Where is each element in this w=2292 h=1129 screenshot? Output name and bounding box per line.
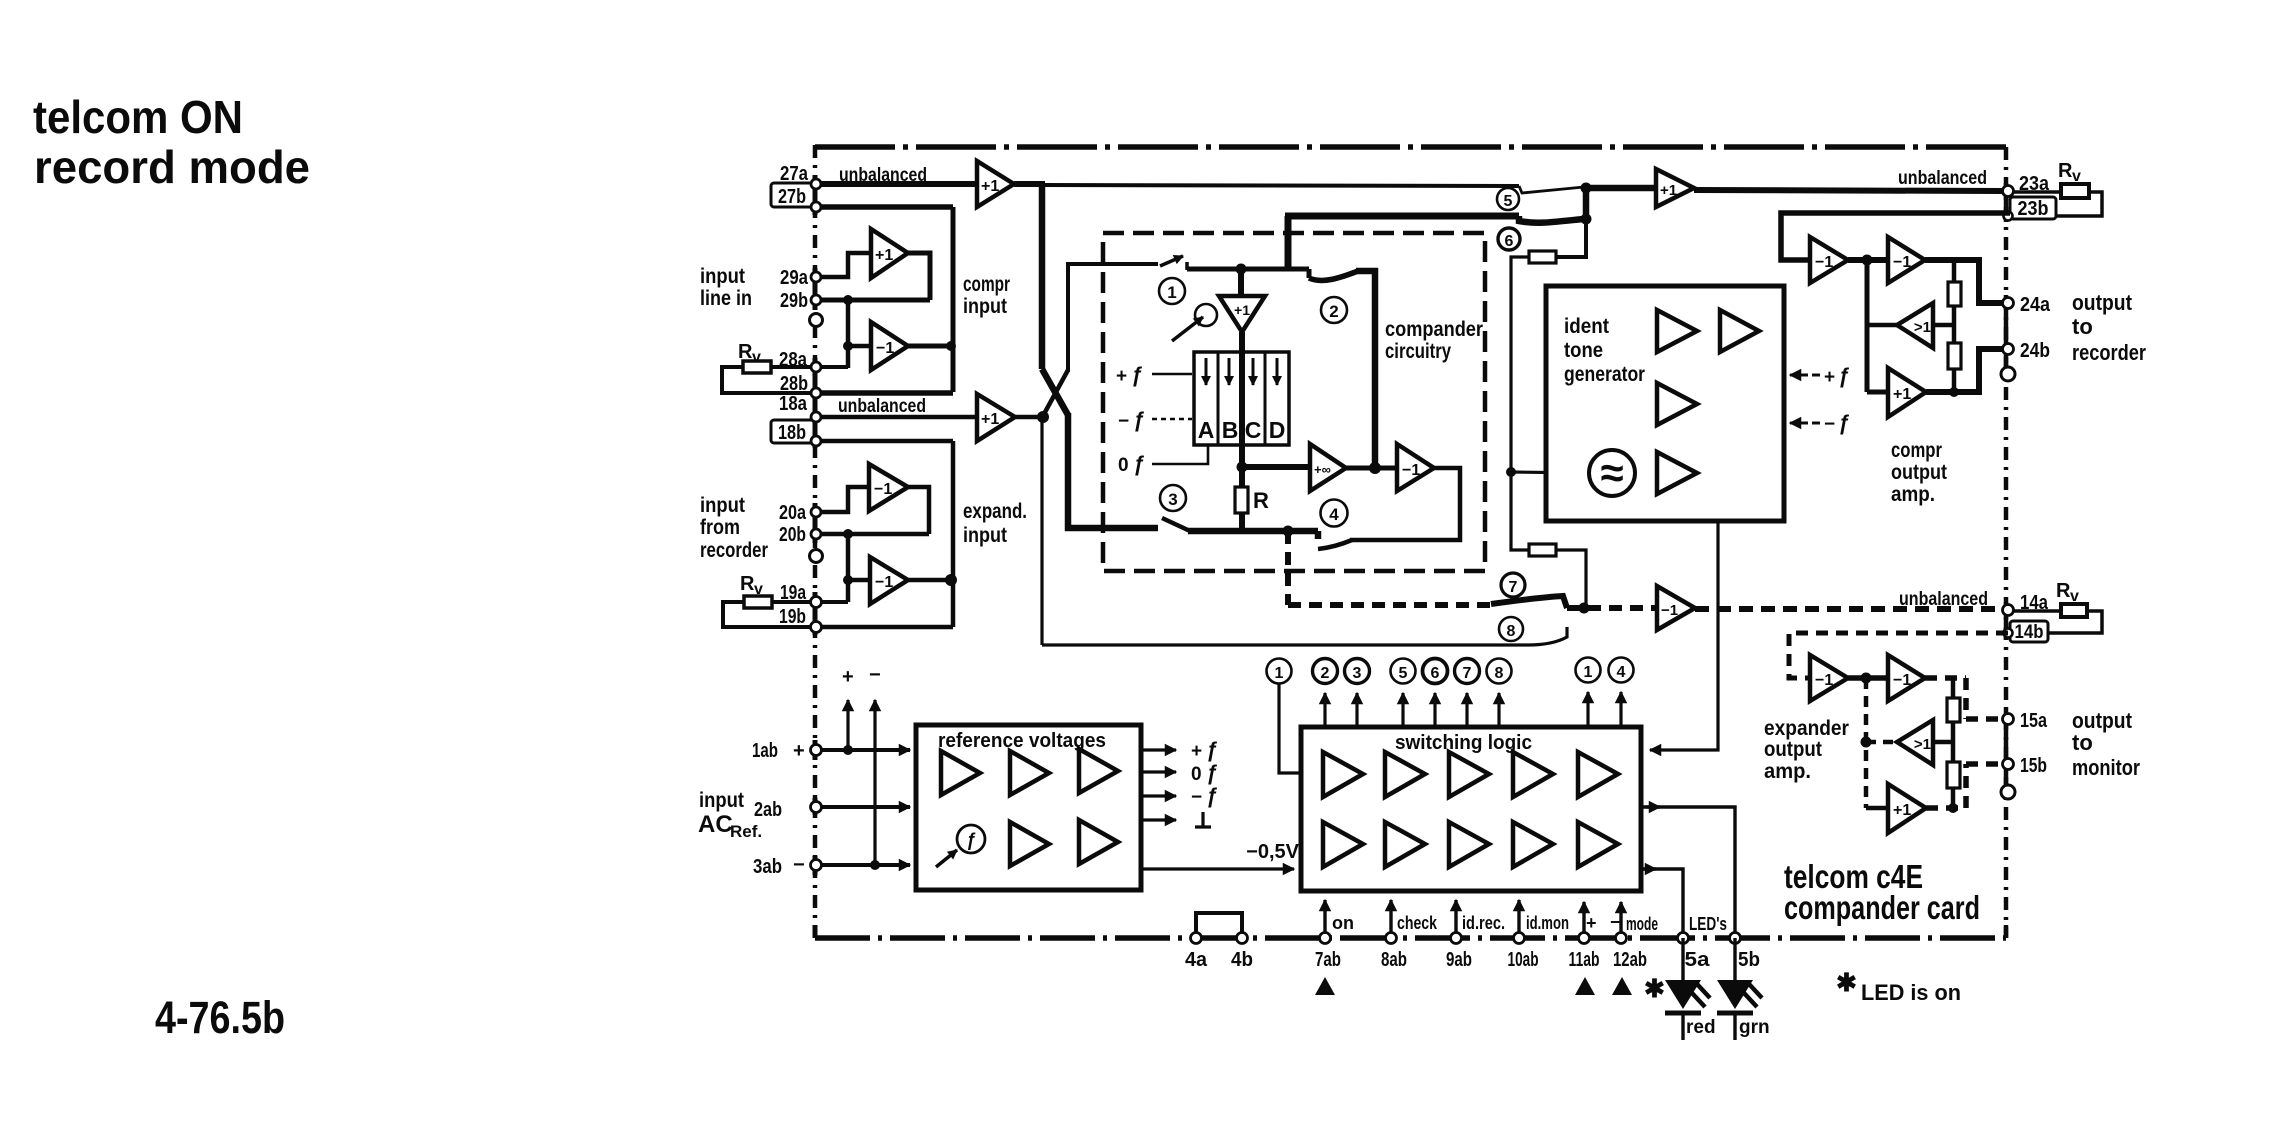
svg-text:3ab: 3ab [753, 856, 782, 878]
label compr output amp. [1891, 439, 1947, 506]
svg-text:R: R [740, 573, 755, 595]
wire 20a to amp [816, 487, 869, 512]
svg-text:R: R [2056, 580, 2071, 602]
pin 15a circle [2003, 714, 2014, 725]
wire control 1 into box [1279, 684, 1299, 773]
wire upper amp feedback loop to 29b [908, 253, 930, 300]
svg-text:expand.: expand. [963, 500, 1027, 523]
svg-text:compr: compr [1891, 439, 1942, 462]
wire 27a vertical down [1039, 184, 1046, 369]
svg-text:20a: 20a [779, 502, 807, 524]
node 5 circle [1497, 188, 1519, 210]
svg-text:generator: generator [1564, 363, 1645, 386]
wire third amp input [1867, 390, 1888, 395]
op-amp -1 expander output second [1888, 655, 1925, 701]
svg-text:ƒ: ƒ [966, 830, 976, 850]
wire 18a [816, 415, 977, 420]
sine source circle [1589, 450, 1635, 496]
pin 15b circle [2003, 759, 2014, 770]
pin 1ab [752, 740, 805, 762]
ref output arrow ground [1141, 818, 1176, 821]
svg-text:4a: 4a [1185, 949, 1208, 971]
pin label 19a / 19b [779, 582, 807, 628]
control node 4 [1609, 658, 1634, 683]
wire 20b down to lower amp input [846, 534, 851, 602]
ref triangle r1c1 [941, 751, 980, 795]
svg-text:ident: ident [1564, 315, 1609, 338]
svg-text:4: 4 [1617, 664, 1626, 681]
svg-text:to: to [2072, 314, 2093, 339]
wire 19b (expand input box bottom edge) [816, 625, 953, 630]
svg-text:7ab: 7ab [1315, 949, 1341, 971]
svg-text:0: 0 [1118, 455, 1129, 476]
svg-text:+: + [1191, 741, 1202, 762]
svg-text:−: − [793, 854, 805, 876]
card boundary right edge [2004, 147, 2009, 938]
wire to lower amp [848, 344, 871, 349]
node 3 circle [1160, 485, 1186, 511]
wire 23b return [1781, 213, 2010, 260]
svg-text:monitor: monitor [2072, 755, 2140, 780]
logic triangle r2c3 [1449, 822, 1489, 867]
wire Rv to 19a pin [772, 600, 848, 604]
svg-text:8: 8 [1507, 623, 1516, 640]
label input from recorder [700, 494, 768, 562]
logic triangle r2c1 [1323, 822, 1363, 867]
pin label 29a / 29b [780, 267, 809, 312]
svg-text:recorder: recorder [700, 539, 768, 562]
svg-text:expander: expander [1764, 717, 1849, 740]
wire fb amp connections (dashed) [1866, 740, 1897, 745]
logic triangle r1c4 [1513, 752, 1553, 797]
svg-text:8: 8 [1495, 665, 1504, 682]
op-amp -1 expand input upper [869, 464, 908, 511]
switch 5 blade (thin) [1519, 186, 1584, 193]
svg-text:✱: ✱ [1836, 969, 1857, 997]
control node 6 [1423, 659, 1448, 684]
wire crossing diagonal 27a [1042, 369, 1068, 415]
wire third out to 24b [1926, 349, 2002, 392]
node 4 circle [1321, 500, 1348, 527]
control node 1 (right) [1576, 658, 1601, 683]
op-amp +1 from-recorder buffer (18a) [977, 394, 1015, 441]
logic triangle r2c5 [1578, 822, 1618, 867]
svg-text:ƒ: ƒ [1133, 453, 1145, 476]
switch 4 blade (open) [1318, 540, 1352, 549]
pin 23a circle [2003, 186, 2014, 197]
wire third amp input (dashed) [1866, 806, 1888, 811]
wire 18a up to switch 1 [1068, 264, 1158, 372]
resistor (ident tap upper) [1529, 251, 1556, 263]
wire switch 1 to node [1187, 267, 1309, 272]
svg-text:input: input [700, 265, 745, 288]
wire Rv to 28a pin [771, 365, 848, 369]
switch 2 blade [1309, 271, 1358, 280]
svg-text:input: input [699, 789, 744, 812]
pin circles left bus [811, 179, 822, 633]
switch 3 blade [1162, 518, 1190, 531]
switching logic box [1301, 727, 1641, 891]
ref triangle r1c3 [1079, 749, 1118, 793]
svg-text:+1: +1 [1893, 802, 1911, 819]
node 7 circle [1501, 573, 1525, 597]
control arrow -f (ident) [1790, 422, 1808, 425]
svg-text:+1: +1 [1234, 302, 1250, 318]
op-amp -1 monitor buffer [1657, 586, 1695, 630]
label expander output amp. [1764, 717, 1849, 783]
net -0,5V [1246, 841, 1299, 863]
open connector circle on bus below 20b [810, 550, 823, 563]
ident triangle 1 [1657, 310, 1697, 352]
pin box 23b [2010, 197, 2056, 219]
svg-text:LED is on: LED is on [1861, 980, 1961, 1005]
svg-text:7: 7 [1509, 579, 1518, 596]
wire expander dashed from compander [1288, 602, 1491, 608]
control node 2 [1313, 659, 1338, 684]
wire 14b dashed return [1789, 633, 2008, 678]
card boundary left edge (pin bus) [813, 145, 818, 938]
svg-text:11ab: 11ab [1569, 949, 1600, 971]
marker triangles (active pins) [1315, 977, 1335, 995]
op-amp -1 expand input lower [870, 557, 908, 604]
junction switch 7 [1579, 603, 1590, 614]
svg-text:5a: 5a [1685, 949, 1711, 971]
control node 8 [1487, 659, 1512, 684]
node 6 circle [1498, 228, 1520, 250]
svg-text:+: + [1824, 367, 1835, 388]
solid right edge segments at pin groups [2004, 183, 2009, 938]
ABCD switch block [1194, 352, 1289, 445]
svg-text:ƒ: ƒ [1133, 409, 1145, 432]
card boundary top edge [815, 144, 2006, 150]
svg-text:+: + [1116, 366, 1127, 387]
svg-text:compander card: compander card [1784, 889, 1980, 926]
wire LED drive 5b [1641, 807, 1735, 933]
page number 4-76.5b [155, 992, 285, 1043]
svg-text:−1: −1 [1893, 254, 1911, 271]
net label unbalanced (23a) [1898, 168, 1987, 189]
ref triangle r2c2 [1010, 822, 1049, 866]
ref triangle r1c2 [1010, 751, 1049, 795]
wire dashed to monitor buffer [1567, 605, 1657, 611]
ident triangle 3 [1657, 383, 1697, 425]
resistor Rv (19a) [740, 573, 763, 598]
svg-text:R: R [2058, 160, 2073, 182]
rail pin number labels [1185, 949, 1760, 971]
svg-text:line in: line in [700, 287, 752, 310]
junction sine branch [1506, 467, 1516, 477]
ref triangle r2c3 [1079, 820, 1118, 864]
pin label 28a / 28b [779, 349, 808, 395]
wire switch 2 down to VCA node [1356, 271, 1375, 468]
connector circle below 15b [2001, 785, 2015, 799]
card boundary bottom edge [815, 935, 2006, 941]
wire 3ab to ref box [822, 863, 910, 867]
pin box 14b [2010, 621, 2048, 642]
svg-text:1: 1 [1167, 283, 1176, 302]
op-amp -1 compr input lower [871, 322, 908, 370]
pin 24a circle [2003, 298, 2014, 309]
pin 2ab [754, 799, 782, 821]
svg-text:29b: 29b [780, 290, 808, 312]
wire 18a down to contact 8 [1040, 417, 1043, 645]
note * LED is on [1836, 969, 1961, 1005]
switch 6 blade (thick, selected) [1519, 216, 1584, 223]
wire node6 down to resistor [1556, 219, 1586, 257]
svg-text:+∞: +∞ [1314, 462, 1331, 477]
wire 27a down to switch 3 [1068, 413, 1158, 528]
pin label 27a [780, 163, 809, 185]
svg-text:amp.: amp. [1764, 760, 1811, 783]
svg-text:output: output [1891, 461, 1947, 484]
svg-text:C: C [1245, 417, 1262, 443]
svg-text:−: − [869, 664, 881, 686]
svg-text:+1: +1 [1893, 386, 1911, 403]
svg-text:19b: 19b [779, 606, 806, 628]
junction lower amp input [843, 341, 853, 351]
svg-text:−: − [1610, 912, 1621, 932]
ref output arrow -f [1141, 794, 1176, 797]
label input line in [700, 265, 752, 310]
junction R node [1237, 462, 1248, 473]
wire 27a [816, 181, 977, 187]
svg-text:ƒ: ƒ [1206, 739, 1218, 762]
pin 14a circle [2003, 605, 2014, 616]
wire to sine generator [1511, 472, 1589, 473]
pin function labels [1332, 912, 1727, 934]
control node 5 [1391, 659, 1416, 684]
label compr input [963, 273, 1010, 318]
resistor (ident tap lower) [1529, 544, 1556, 556]
pin 14b circle [2004, 629, 2013, 638]
junction at box edge [946, 341, 956, 351]
svg-text:24a: 24a [2020, 294, 2051, 316]
label telcom c4E compander card [1784, 858, 1980, 926]
svg-text:AC: AC [698, 811, 733, 838]
svg-text:0: 0 [1191, 764, 1202, 785]
wire to output buffer [1586, 185, 1656, 192]
arrows inside ABCD columns [1205, 358, 1208, 385]
svg-text:>1: >1 [1914, 319, 1931, 336]
svg-text:3: 3 [1168, 490, 1177, 509]
pin 23b circle [2004, 212, 2013, 221]
wire compander output top line [1285, 213, 1519, 220]
wire upper amp feedback loop to 20b [908, 487, 929, 534]
wire Rv loop to 19b [723, 602, 816, 627]
op-amp -1 expander output first [1810, 655, 1848, 701]
svg-text:≈: ≈ [1600, 449, 1623, 496]
svg-text:−0,5V: −0,5V [1246, 841, 1299, 863]
rail pin circles [1191, 933, 1741, 944]
svg-text:3: 3 [1353, 665, 1362, 682]
wire resistor to ident bus [1511, 257, 1529, 472]
wire lower amp output to box edge [908, 578, 953, 583]
pin label 18a [779, 393, 808, 415]
op-amp +1 record output buffer [1656, 169, 1694, 207]
svg-text:2: 2 [1329, 302, 1338, 321]
net label unbalanced (27a) [839, 165, 927, 186]
switch 1 blade with arrow [1160, 256, 1183, 266]
wire crossing diagonal 18a [1044, 370, 1068, 414]
wire 1ab to ref box [822, 748, 910, 752]
node 1 circle [1159, 278, 1185, 304]
junction expander tap [1283, 526, 1294, 537]
supply + arrow up [846, 700, 849, 750]
wire lower resistor to switch 7 junction [1556, 550, 1586, 607]
junction compr fb node [1862, 255, 1873, 266]
wire second out to 24a [1925, 260, 2002, 303]
svg-text:5: 5 [1504, 193, 1513, 210]
LED 5a (red, on) [1681, 938, 1684, 980]
logic triangle r1c1 [1323, 752, 1363, 797]
svg-text:1ab: 1ab [752, 740, 778, 762]
wire Rv loop to 23b [2056, 192, 2102, 216]
op-amp >1 expander fb (points left) [1897, 720, 1933, 765]
junction bar 5/6 [1583, 185, 1590, 221]
svg-text:tone: tone [1564, 339, 1603, 362]
pin 24b circle [2003, 344, 2014, 355]
wire to expander contact 8 [1042, 627, 1567, 645]
wire compander bottom line [1188, 531, 1318, 539]
svg-text:red: red [1686, 1017, 1716, 1038]
svg-text:−: − [1118, 411, 1129, 432]
svg-text:D: D [1269, 417, 1286, 443]
junction [1948, 803, 1958, 813]
svg-text:unbalanced: unbalanced [839, 165, 927, 186]
pin 3ab [753, 854, 805, 878]
svg-text:input: input [700, 494, 745, 517]
svg-text:28b: 28b [780, 373, 808, 395]
svg-text:27b: 27b [778, 186, 806, 208]
junction lower amp input [843, 575, 853, 585]
junction compr top node [1236, 264, 1247, 275]
svg-text:4: 4 [1329, 505, 1339, 524]
op-amp +1 line-in buffer (27a) [977, 161, 1014, 207]
svg-text:LED's: LED's [1689, 914, 1727, 934]
svg-text:−1: −1 [1815, 254, 1833, 271]
logic triangle r2c4 [1513, 822, 1553, 867]
svg-text:unbalanced: unbalanced [1898, 168, 1987, 189]
svg-text:compander: compander [1385, 318, 1483, 341]
reference voltages box [916, 725, 1141, 890]
resistor chain R2 (expander) [1947, 762, 1960, 788]
svg-text:2ab: 2ab [754, 799, 782, 821]
control node 7 [1455, 659, 1480, 684]
wire first to second [1848, 257, 1888, 263]
svg-text:amp.: amp. [1891, 483, 1935, 506]
svg-text:4-76.5b: 4-76.5b [155, 992, 285, 1043]
ident triangle 4 [1657, 452, 1697, 494]
wire long line to contact 5 [1042, 185, 1519, 186]
compander circuitry dashed box [1103, 233, 1485, 571]
switch 1 contact stub [1185, 262, 1189, 270]
op-amp VCA (+inf) [1310, 444, 1346, 491]
control node 3 [1345, 659, 1370, 684]
pin box 27b [771, 183, 814, 207]
wire node up-over (thick) [1285, 216, 1292, 269]
wire 27a buffer output to node X [1014, 181, 1045, 187]
wire +1 amp to ABCD block [1239, 332, 1245, 352]
svg-text:check: check [1397, 913, 1438, 933]
svg-text:6: 6 [1431, 665, 1440, 682]
svg-text:1: 1 [1275, 665, 1284, 682]
wire 29a to amp [816, 253, 871, 277]
svg-text:7: 7 [1463, 665, 1472, 682]
svg-text:input: input [963, 295, 1007, 318]
svg-text:+: + [1586, 913, 1597, 933]
svg-text:15b: 15b [2020, 755, 2047, 777]
wire lower amp output to box edge [908, 344, 953, 349]
svg-text:5: 5 [1399, 665, 1408, 682]
resistor chain R1 (expander) [1951, 678, 1956, 698]
svg-text:on: on [1332, 913, 1354, 933]
svg-text:ƒ: ƒ [1206, 785, 1218, 808]
svg-text:23b: 23b [2018, 198, 2049, 220]
svg-text:−1: −1 [1893, 672, 1911, 689]
svg-text:A: A [1198, 417, 1215, 443]
wire fb amp connections [1867, 323, 1954, 328]
junction 20b [843, 529, 853, 539]
svg-text:+1: +1 [981, 178, 999, 195]
wire expander tap dashed down [1285, 531, 1291, 605]
control arrow +f (ident) [1790, 374, 1808, 377]
ground symbol [1195, 812, 1211, 827]
svg-text:grn: grn [1739, 1017, 1770, 1038]
wire fb chain vertical (dashed) [1864, 678, 1869, 808]
compr input box [951, 207, 956, 392]
title: telcom ON record mode [33, 91, 310, 193]
pin label 20a / 20b [779, 502, 807, 546]
wire second out to 15a (dashed) [1925, 678, 2002, 719]
control node 1 (left) [1267, 659, 1292, 684]
wire VCA to -1 amp [1346, 466, 1397, 471]
label output to monitor [2072, 708, 2140, 780]
svg-text:−: − [1191, 787, 1202, 808]
resistor R [1239, 467, 1245, 487]
svg-text:output: output [1764, 738, 1822, 761]
jumper 4a-4b [1196, 913, 1242, 933]
svg-text:output: output [2072, 290, 2133, 315]
control net 0f [1118, 453, 1145, 476]
LED 5b (green) [1733, 938, 1736, 980]
svg-text:compr: compr [963, 273, 1010, 296]
svg-text:−1: −1 [1815, 672, 1833, 689]
wire Rv loop to 14b [2048, 611, 2102, 633]
svg-text:4b: 4b [1231, 949, 1253, 971]
svg-text:18a: 18a [779, 393, 808, 415]
label compander circuitry [1385, 318, 1483, 363]
svg-text:8ab: 8ab [1381, 949, 1407, 971]
svg-text:unbalanced: unbalanced [838, 396, 926, 417]
wire third out to 15b (dashed) [1926, 764, 2002, 808]
svg-text:20b: 20b [779, 524, 806, 546]
svg-text:19a: 19a [780, 582, 807, 604]
control net +f [1116, 364, 1143, 387]
label output to recorder [2072, 290, 2146, 365]
svg-text:+: + [793, 740, 805, 762]
svg-text:mode: mode [1626, 914, 1658, 934]
wire dashed buffer to pin 14a [1695, 606, 2002, 612]
label expand. input [963, 500, 1027, 547]
junction expander fb node [1861, 673, 1872, 684]
svg-text:1: 1 [1584, 664, 1593, 681]
resistor Rv (28a) [738, 341, 761, 366]
svg-text:record mode: record mode [34, 141, 310, 193]
svg-text:14b: 14b [2015, 622, 2044, 643]
wire ident bus down to lower resistor [1511, 472, 1529, 550]
op-amp -1 compr output first [1810, 237, 1848, 283]
labels A B C D [1198, 417, 1286, 443]
